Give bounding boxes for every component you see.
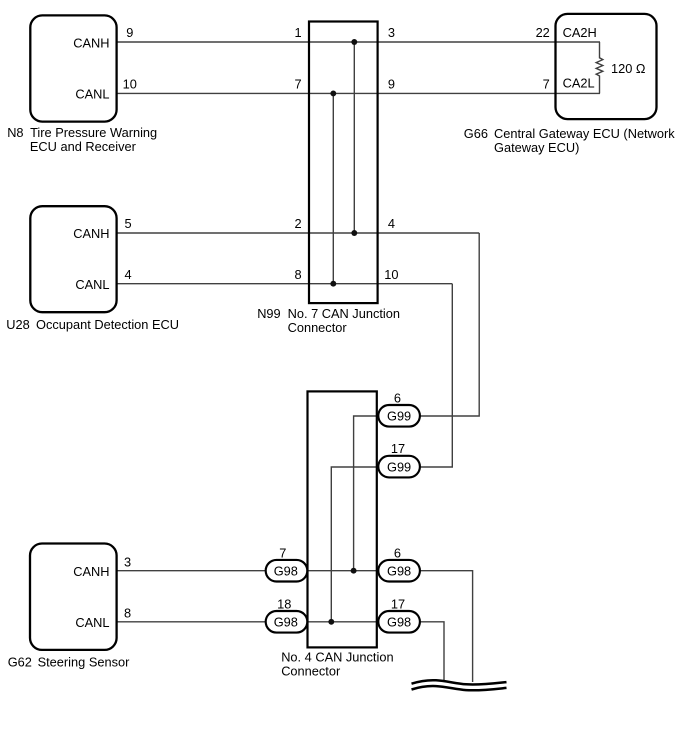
svg-text:CANH: CANH xyxy=(73,564,109,579)
wire inside No.4 connector from G99-6 down xyxy=(354,416,379,571)
svg-text:Gateway ECU): Gateway ECU) xyxy=(494,140,579,155)
connector oval G99 pin17 xyxy=(378,456,420,478)
junction dot N99 pin2/4 xyxy=(351,230,357,236)
svg-text:CANH: CANH xyxy=(73,36,109,51)
ECU N8 box xyxy=(30,15,116,121)
svg-text:Central Gateway ECU (Network: Central Gateway ECU (Network xyxy=(494,126,675,141)
svg-text:N99: N99 xyxy=(257,306,280,321)
svg-text:9: 9 xyxy=(126,25,133,40)
wire vertical drop N99 pin4 to G99-6 xyxy=(420,233,479,416)
svg-text:7: 7 xyxy=(294,76,301,91)
ECU G62 box xyxy=(30,544,117,650)
svg-text:22: 22 xyxy=(536,25,550,40)
svg-text:4: 4 xyxy=(124,267,131,282)
junction connector No.4 box xyxy=(308,391,377,647)
svg-text:G66: G66 xyxy=(464,126,488,141)
ECU G66 box xyxy=(556,14,657,119)
connector oval G99 pin6 xyxy=(378,405,420,427)
label G66 caption xyxy=(464,126,675,155)
svg-text:CA2L: CA2L xyxy=(563,76,595,91)
svg-text:5: 5 xyxy=(124,216,131,231)
svg-text:G98: G98 xyxy=(274,615,298,630)
svg-text:7: 7 xyxy=(543,76,550,91)
wire inside No.4 connector from G99-17 down xyxy=(331,467,378,622)
wire N99 internal vertical pin7-pin8 row xyxy=(332,93,334,283)
resistor 120 ohm inside G66 xyxy=(596,42,603,93)
svg-text:G98: G98 xyxy=(274,564,298,579)
junction dot N99 pin1/3 xyxy=(351,39,357,45)
svg-text:No. 7 CAN Junction: No. 7 CAN Junction xyxy=(288,306,400,321)
svg-text:2: 2 xyxy=(294,216,301,231)
svg-text:8: 8 xyxy=(124,605,131,620)
svg-text:G98: G98 xyxy=(387,615,411,630)
label N8 caption xyxy=(7,125,157,154)
wire from G98-17 down to break xyxy=(420,622,444,682)
junction dot No.4 row E xyxy=(351,568,357,574)
label No.4 caption xyxy=(281,649,393,678)
svg-text:10: 10 xyxy=(123,76,137,91)
svg-text:No. 4 CAN Junction: No. 4 CAN Junction xyxy=(281,649,393,664)
svg-text:Tire Pressure Warning: Tire Pressure Warning xyxy=(30,125,157,140)
junction dot N99 pin8/10 xyxy=(330,281,336,287)
wire G62 CANH row to G98 ovals xyxy=(117,570,420,572)
svg-text:6: 6 xyxy=(394,545,401,560)
svg-text:7: 7 xyxy=(279,545,286,560)
connector oval G98 pin7 left xyxy=(266,560,308,582)
wire vertical drop N99 pin10 to G99-17 xyxy=(420,284,452,467)
svg-text:8: 8 xyxy=(294,267,301,282)
svg-text:17: 17 xyxy=(391,597,405,612)
wire G62 CANL row to G98 ovals xyxy=(117,621,420,623)
wire from G98-6 down to break xyxy=(420,571,473,682)
svg-text:ECU and Receiver: ECU and Receiver xyxy=(30,139,137,154)
svg-text:N8: N8 xyxy=(7,125,23,140)
junction connector N99 box xyxy=(309,22,378,304)
wire CANL row: N8 pin10 to N99 pin7 to G66 pin7 xyxy=(117,92,601,94)
label G62 caption xyxy=(8,655,130,670)
label U28 caption xyxy=(6,317,179,332)
svg-text:Steering Sensor: Steering Sensor xyxy=(38,655,131,670)
svg-text:G99: G99 xyxy=(387,460,411,475)
svg-text:G62: G62 xyxy=(8,655,32,670)
svg-text:CANH: CANH xyxy=(73,226,109,241)
svg-text:17: 17 xyxy=(391,441,405,456)
connector oval G98 pin6 right xyxy=(378,560,420,582)
svg-text:10: 10 xyxy=(384,267,398,282)
svg-text:CANL: CANL xyxy=(75,87,109,102)
junction dot N99 pin7/9 xyxy=(330,90,336,96)
svg-text:4: 4 xyxy=(388,216,395,231)
svg-text:Connector: Connector xyxy=(288,320,348,335)
wire break wavy line lower xyxy=(412,686,507,690)
connector oval G98 pin17 right xyxy=(378,611,420,633)
junction dot No.4 row F xyxy=(328,619,334,625)
svg-text:CANL: CANL xyxy=(75,277,109,292)
wire CANH row: N8 pin9 to N99 pin1 to G66 pin22 xyxy=(117,41,601,43)
svg-text:Connector: Connector xyxy=(281,664,341,679)
wire N99 internal vertical pin1-pin2 row xyxy=(353,42,355,233)
svg-text:18: 18 xyxy=(277,597,291,612)
svg-text:9: 9 xyxy=(388,76,395,91)
svg-text:3: 3 xyxy=(124,554,131,569)
connector oval G98 pin18 left xyxy=(266,611,308,633)
svg-text:G99: G99 xyxy=(387,409,411,424)
svg-text:CANL: CANL xyxy=(75,615,109,630)
svg-text:1: 1 xyxy=(294,25,301,40)
svg-text:3: 3 xyxy=(388,25,395,40)
ECU U28 box xyxy=(30,206,116,312)
wire U28 CANL to N99 pin8 and out pin10 xyxy=(117,283,453,285)
svg-text:U28: U28 xyxy=(6,317,29,332)
wire U28 CANH to N99 pin2 and out pin4 xyxy=(117,232,480,234)
svg-text:Occupant Detection ECU: Occupant Detection ECU xyxy=(36,317,179,332)
svg-text:G98: G98 xyxy=(387,564,411,579)
wire break wavy line upper xyxy=(412,680,507,684)
svg-text:6: 6 xyxy=(394,391,401,406)
label N99 caption xyxy=(257,306,400,335)
svg-text:CA2H: CA2H xyxy=(563,25,597,40)
